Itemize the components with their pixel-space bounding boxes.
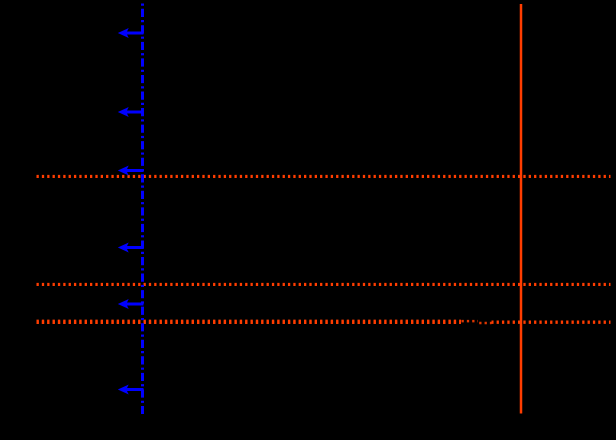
blue arrow 5 (y=304)	[118, 299, 144, 309]
red dotted horizontal line B (y=284)	[37, 283, 611, 286]
red dotted line C thick overlay (x 36.5-461)	[37, 320, 462, 324]
line C staggered overlap patch (x 461-492)	[461, 317, 492, 327]
orangered solid vertical line (x=521)	[520, 4, 523, 414]
red dotted horizontal line C base (y=322.2)	[37, 321, 611, 324]
blue arrow 4 (y=247.5)	[118, 243, 144, 253]
blue arrow 2 (y=112)	[118, 107, 144, 117]
blue arrow 6 (y=389.5)	[118, 385, 144, 395]
blue arrow 3 (y=170.5)	[118, 166, 144, 176]
red dotted horizontal line A (y=176)	[37, 175, 611, 178]
blue dash-dot vertical line (x=142.5)	[141, 4, 144, 415]
blue arrow 1 (y=33)	[118, 28, 144, 38]
